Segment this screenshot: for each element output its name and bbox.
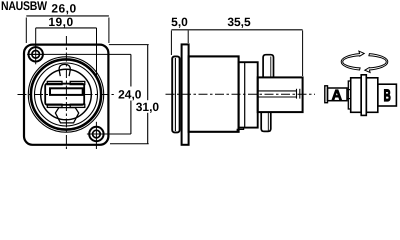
- svg-text:31,0: 31,0: [136, 100, 160, 114]
- dimension 19,0: [36, 28, 97, 76]
- icon plug A cap: [325, 86, 328, 103]
- round body circles: [28, 57, 103, 132]
- icon socket B box: [378, 84, 397, 106]
- body bottom step: [237, 128, 243, 132]
- dimension 5,0 and 35,5: [171, 30, 302, 76]
- vertical centerline front view: [65, 36, 67, 151]
- svg-text:19,0: 19,0: [48, 15, 73, 29]
- dimension 26,0: [26, 16, 109, 43]
- side view centerline: [166, 93, 316, 95]
- dimension 24,0: [27, 54, 131, 134]
- main body side view: [189, 56, 239, 131]
- svg-text:5,0: 5,0: [171, 15, 188, 29]
- sealing gasket: [172, 56, 179, 132]
- mounting hole bottom-right: [89, 122, 103, 149]
- collar sleeve: [239, 62, 258, 127]
- dimension 31,0: [109, 45, 149, 144]
- icon plug A box: [328, 88, 348, 101]
- icon neck rails: [347, 90, 350, 99]
- USB tongue: [50, 88, 83, 95]
- icon drum lip: [348, 81, 350, 109]
- latch ear top: [263, 55, 273, 78]
- svg-text:35,5: 35,5: [227, 15, 251, 29]
- key dome top: [59, 64, 70, 76]
- svg-text:B: B: [384, 87, 391, 105]
- icon drum disc: [361, 75, 366, 116]
- key keystone bottom: [55, 108, 78, 123]
- latch ear bottom: [261, 112, 271, 131]
- USB-A plug side view: [258, 77, 303, 112]
- rotation arrow left arc: [341, 51, 364, 70]
- flange plate side view: [182, 44, 189, 144]
- svg-text:A: A: [332, 86, 342, 102]
- icon drum left body: [351, 78, 362, 113]
- svg-text:NAUSBW: NAUSBW: [1, 0, 47, 13]
- svg-text:26,0: 26,0: [51, 1, 76, 15]
- horizontal centerline front view: [18, 94, 114, 96]
- mounting hole top-left: [27, 47, 44, 61]
- icon drum right body: [366, 78, 378, 113]
- front view flange: [24, 45, 108, 145]
- USB-A receptacle shell: [45, 81, 85, 107]
- rotation arrow right arc: [365, 54, 388, 73]
